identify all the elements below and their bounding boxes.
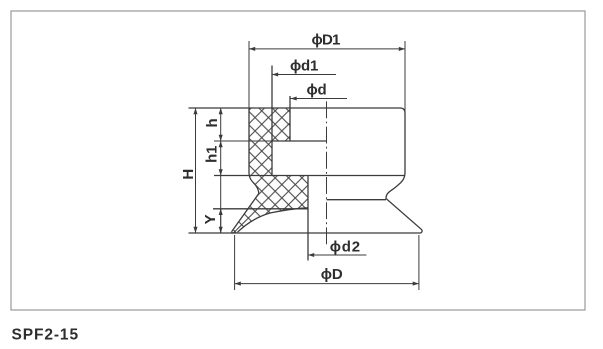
svg-text:ϕD1: ϕD1 <box>312 32 340 49</box>
svg-text:H: H <box>180 169 197 180</box>
svg-text:ϕd1: ϕd1 <box>290 58 318 75</box>
svg-text:ϕd: ϕd <box>307 82 327 99</box>
svg-text:h: h <box>204 118 221 127</box>
svg-text:SPF2-15: SPF2-15 <box>12 326 79 343</box>
svg-text:ϕd2: ϕd2 <box>330 239 361 256</box>
svg-text:Y: Y <box>202 214 219 224</box>
svg-text:ϕD: ϕD <box>321 266 343 283</box>
svg-text:h1: h1 <box>204 146 221 163</box>
